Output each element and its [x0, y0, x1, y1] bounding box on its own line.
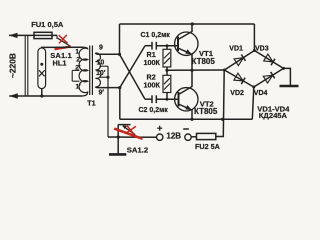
capacitor C2 — [152, 95, 156, 103]
svg-text:~220В: ~220В — [8, 53, 18, 78]
transistor VT1 emitter arrow — [185, 49, 192, 54]
svg-text:FU2 5А: FU2 5А — [195, 142, 220, 151]
label pin 1 — [75, 48, 79, 55]
wire: secondary pin9 lead — [96, 53, 120, 54]
junction: HL1 bottom — [40, 94, 43, 97]
label T1 — [87, 98, 95, 107]
wire: R2 bottom stub — [166, 93, 168, 100]
label R1 100K — [144, 58, 161, 67]
wire: FU2 riser from bridge left corner — [216, 70, 224, 137]
fuse FU2 — [197, 133, 216, 139]
svg-text:10: 10 — [97, 59, 105, 66]
lamp HL1 inner dot — [40, 63, 43, 66]
transformer T1 secondary winding — [96, 53, 101, 87]
switch SA1.1 lever — [58, 38, 70, 46]
switch SA1.2 lever — [123, 126, 135, 135]
terminal plus circle — [157, 134, 163, 140]
wire: bridge bottom riser — [252, 87, 254, 119]
label pin 1' — [76, 84, 82, 91]
svg-text:9: 9 — [99, 45, 103, 52]
diode VD1 — [234, 54, 245, 65]
ground chassis bottom — [109, 153, 126, 156]
resistor R2 — [163, 75, 171, 92]
lamp HL1 body — [38, 48, 46, 89]
switch SA1.1 red X mark — [59, 35, 68, 44]
wire: HL1 top lead + primary pin1 wire — [42, 47, 83, 48]
svg-text:Т1: Т1 — [87, 98, 95, 107]
wire: diagonal node9' to C1 — [120, 46, 145, 88]
svg-text:100К: 100К — [144, 58, 161, 67]
label plus sign — [157, 126, 162, 131]
label KD245A — [259, 111, 288, 120]
wire: plus wire from center tap — [108, 136, 157, 138]
svg-text:1: 1 — [75, 48, 79, 55]
svg-text:КТ805: КТ805 — [192, 57, 216, 66]
label minus sign — [183, 128, 189, 130]
label VD1-VD4 — [257, 104, 290, 113]
transformer T1 core — [90, 46, 93, 96]
wire: secondary pin9' lead — [96, 86, 120, 89]
switch SA1.2 bracket — [118, 124, 130, 126]
label pin 9 — [99, 45, 103, 52]
junction: R1 top — [166, 44, 169, 47]
terminal minus circle — [185, 134, 191, 140]
svg-text:VD1: VD1 — [229, 46, 243, 53]
label VT2 — [200, 100, 214, 109]
junction: bridge bottom — [252, 86, 255, 89]
label R2 — [147, 73, 156, 82]
svg-text:HL1: HL1 — [53, 59, 67, 68]
wire: bridge edge VD4 — [254, 68, 284, 87]
transistor VT1 base bar — [177, 37, 179, 52]
wire: secondary tap 10' — [100, 76, 109, 78]
junction: FU2 riser on bottom rail — [221, 118, 224, 121]
svg-text:VD4: VD4 — [254, 90, 268, 97]
svg-text:100К: 100К — [144, 80, 161, 89]
arrow: mains bottom lead arrowhead — [9, 93, 17, 98]
wire: C2 to VT2 base — [156, 98, 178, 100]
wire: R1 top stub — [166, 46, 168, 50]
label pin 2' — [75, 65, 81, 72]
svg-text:10′: 10′ — [96, 70, 106, 77]
wire: diagonal node9 to C2 — [120, 54, 146, 99]
wire: top rail — [120, 23, 255, 25]
label ~220V — [8, 53, 18, 78]
transistor VT2 collector — [179, 70, 193, 94]
svg-text:КД245А: КД245А — [259, 111, 288, 120]
wire: R1 bottom stub — [166, 67, 168, 70]
svg-text:2: 2 — [76, 57, 80, 64]
wire: mains double-line left — [24, 35, 26, 96]
label pin 10 — [97, 59, 105, 66]
junction: R2 bottom — [166, 98, 169, 101]
wire: SA1.2 contact + ground stub — [117, 125, 119, 154]
label pin 10' — [96, 70, 106, 77]
wire: bridge right to ground — [284, 68, 291, 85]
wire: mains double-line right — [27, 35, 29, 96]
wire: secondary center-tap vertical — [107, 66, 109, 137]
wire: mains bottom wire ~220V — [9, 95, 82, 97]
label pin 9' — [99, 89, 105, 96]
junction: node 9' — [118, 86, 121, 89]
resistor R1 — [163, 49, 171, 67]
label VD2 — [230, 90, 244, 97]
svg-text:9′: 9′ — [99, 89, 105, 96]
wire: bridge edge VD1 — [224, 51, 254, 71]
transistor VT2 emitter arrow — [185, 105, 192, 110]
label R1 — [147, 50, 156, 59]
junction: node 9 — [118, 53, 121, 56]
wire: C2 left stub — [145, 98, 152, 100]
diode VD4 — [263, 72, 274, 83]
wire: primary tap join — [71, 70, 73, 81]
svg-text:КТ805: КТ805 — [194, 107, 218, 116]
switch SA1.2 lever barb — [123, 125, 128, 129]
junction: bridge left — [223, 69, 226, 72]
label R2 100K — [144, 80, 161, 89]
label 12V — [166, 132, 181, 141]
label VD4 — [254, 90, 268, 97]
junction: VT1 collector on top rail — [191, 22, 194, 25]
wire: secondary tap 10 — [100, 65, 109, 67]
switch SA1.1 contact stub — [56, 35, 58, 38]
label SA1.1 — [50, 51, 72, 60]
label pin 2 — [76, 57, 80, 64]
wire: primary tap 2 — [72, 69, 79, 71]
junction: ground stub on plus wire — [117, 135, 120, 138]
ground chassis right — [280, 85, 299, 88]
wire: primary tap 2' — [72, 80, 79, 82]
wire: mains top wire ~220V — [9, 34, 57, 36]
junction: tap 10' — [107, 76, 110, 79]
label VT1 KT805 — [192, 57, 216, 66]
transistor VT2 circle — [175, 88, 198, 111]
diode VD3 — [264, 54, 275, 65]
wire: bottom rail — [120, 118, 253, 120]
label C1 0,2mk — [141, 32, 171, 39]
wire: riser node9 to top rail — [119, 24, 121, 54]
wire: R2 top stub — [166, 70, 168, 75]
svg-text:FU1 0,5A: FU1 0,5A — [31, 20, 64, 29]
svg-text:1′: 1′ — [76, 84, 82, 91]
svg-text:2′: 2′ — [75, 65, 81, 72]
fuse FU1 — [34, 32, 52, 38]
svg-text:С1 0,2мк: С1 0,2мк — [141, 32, 171, 39]
label SA1.2 — [127, 145, 148, 154]
transformer T1 primary winding — [79, 47, 88, 96]
label VD3 — [255, 46, 269, 53]
switch SA1.2 red stroke — [114, 129, 142, 139]
label HL1 — [53, 59, 67, 68]
svg-text:VD2: VD2 — [230, 90, 244, 97]
diode VD2 — [234, 73, 245, 84]
junction: bridge top — [253, 49, 256, 52]
arrow: mains top lead arrowhead — [9, 33, 18, 38]
svg-text:С2 0,2мк: С2 0,2мк — [139, 107, 169, 114]
wire: riser node9' to bottom rail — [119, 88, 121, 120]
wire: mid rail — [167, 69, 224, 71]
transistor VT1 circle — [175, 32, 198, 55]
svg-text:12В: 12В — [166, 132, 181, 141]
wire: bridge edge VD2 — [224, 70, 253, 87]
capacitor C1 — [152, 42, 156, 50]
transistor VT1 collector — [178, 24, 192, 40]
switch SA1.1 red stroke — [55, 47, 72, 50]
transistor VT2 emitter — [179, 104, 193, 119]
junction: bridge right — [282, 67, 285, 70]
svg-text:SA1.2: SA1.2 — [127, 145, 148, 154]
label VD1 — [229, 46, 243, 53]
label C2 0,2mk — [139, 107, 169, 114]
label FU1 0,5A — [31, 20, 64, 29]
label FU2 5A — [195, 142, 220, 151]
transistor VT1 emitter — [178, 48, 192, 70]
label VT2 KT805 — [194, 107, 218, 116]
switch SA1.2 red X — [126, 126, 137, 135]
wire: HL1 bottom lead — [41, 89, 43, 96]
wire: C1 to VT1 base — [156, 45, 178, 47]
wire: C1 left stub — [145, 45, 152, 47]
label VT1 — [199, 49, 214, 58]
svg-text:VD3: VD3 — [255, 46, 269, 53]
junction: VT2 emitter on bottom rail — [190, 118, 193, 121]
junction: emitters mid — [190, 69, 193, 72]
junction: R1/R2 mid — [165, 69, 168, 72]
wire: top rail down to bridge top — [253, 24, 255, 51]
wire: bridge edge VD3 — [254, 51, 283, 69]
wire: FU2 to minus terminal — [191, 136, 196, 138]
transistor VT2 base bar — [178, 92, 180, 107]
lamp HL1 inner X — [39, 70, 45, 76]
